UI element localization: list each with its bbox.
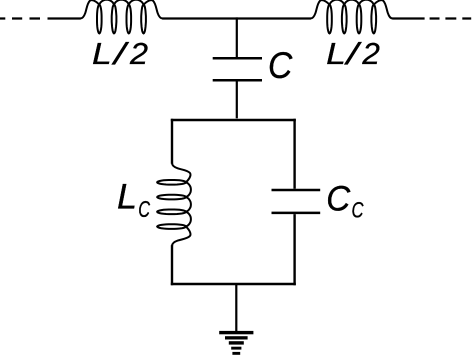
capacitor C plates [213, 58, 262, 80]
svg-text:C: C [268, 45, 293, 86]
wire left solid lead [48, 17, 81, 19]
svg-text:2: 2 [361, 36, 380, 71]
svg-text:/: / [344, 36, 363, 71]
ground [219, 331, 253, 355]
wire dashed left lead [0, 17, 40, 19]
svg-text:L: L [92, 36, 112, 71]
wire capacitor C to tank top [236, 81, 238, 118]
inductor L1 (L/2 left) [80, 0, 163, 33]
capacitor CC plates [272, 190, 321, 213]
wire tank rectangle top [171, 119, 296, 121]
wire tank rectangle left upper [171, 119, 173, 164]
wire tank rectangle bottom [171, 283, 296, 285]
wire tank bottom to ground [235, 284, 237, 331]
svg-text:C: C [326, 180, 351, 219]
svg-text:/: / [111, 36, 130, 71]
wire tank rectangle right upper [293, 119, 295, 189]
wire junction to capacitor C [236, 17, 238, 57]
inductor LC [157, 163, 191, 246]
svg-text:L: L [326, 36, 346, 71]
svg-text:L: L [117, 178, 137, 217]
svg-text:2: 2 [129, 36, 148, 71]
inductor L2 (L/2 right) [310, 0, 393, 33]
wire tank rectangle right lower [293, 214, 295, 285]
svg-text:C: C [138, 196, 150, 222]
wire right solid lead [392, 17, 424, 19]
svg-text:C: C [352, 198, 365, 223]
wire dashed right lead [430, 17, 472, 19]
wire top middle [162, 17, 311, 19]
wire tank rectangle left lower [171, 245, 173, 285]
